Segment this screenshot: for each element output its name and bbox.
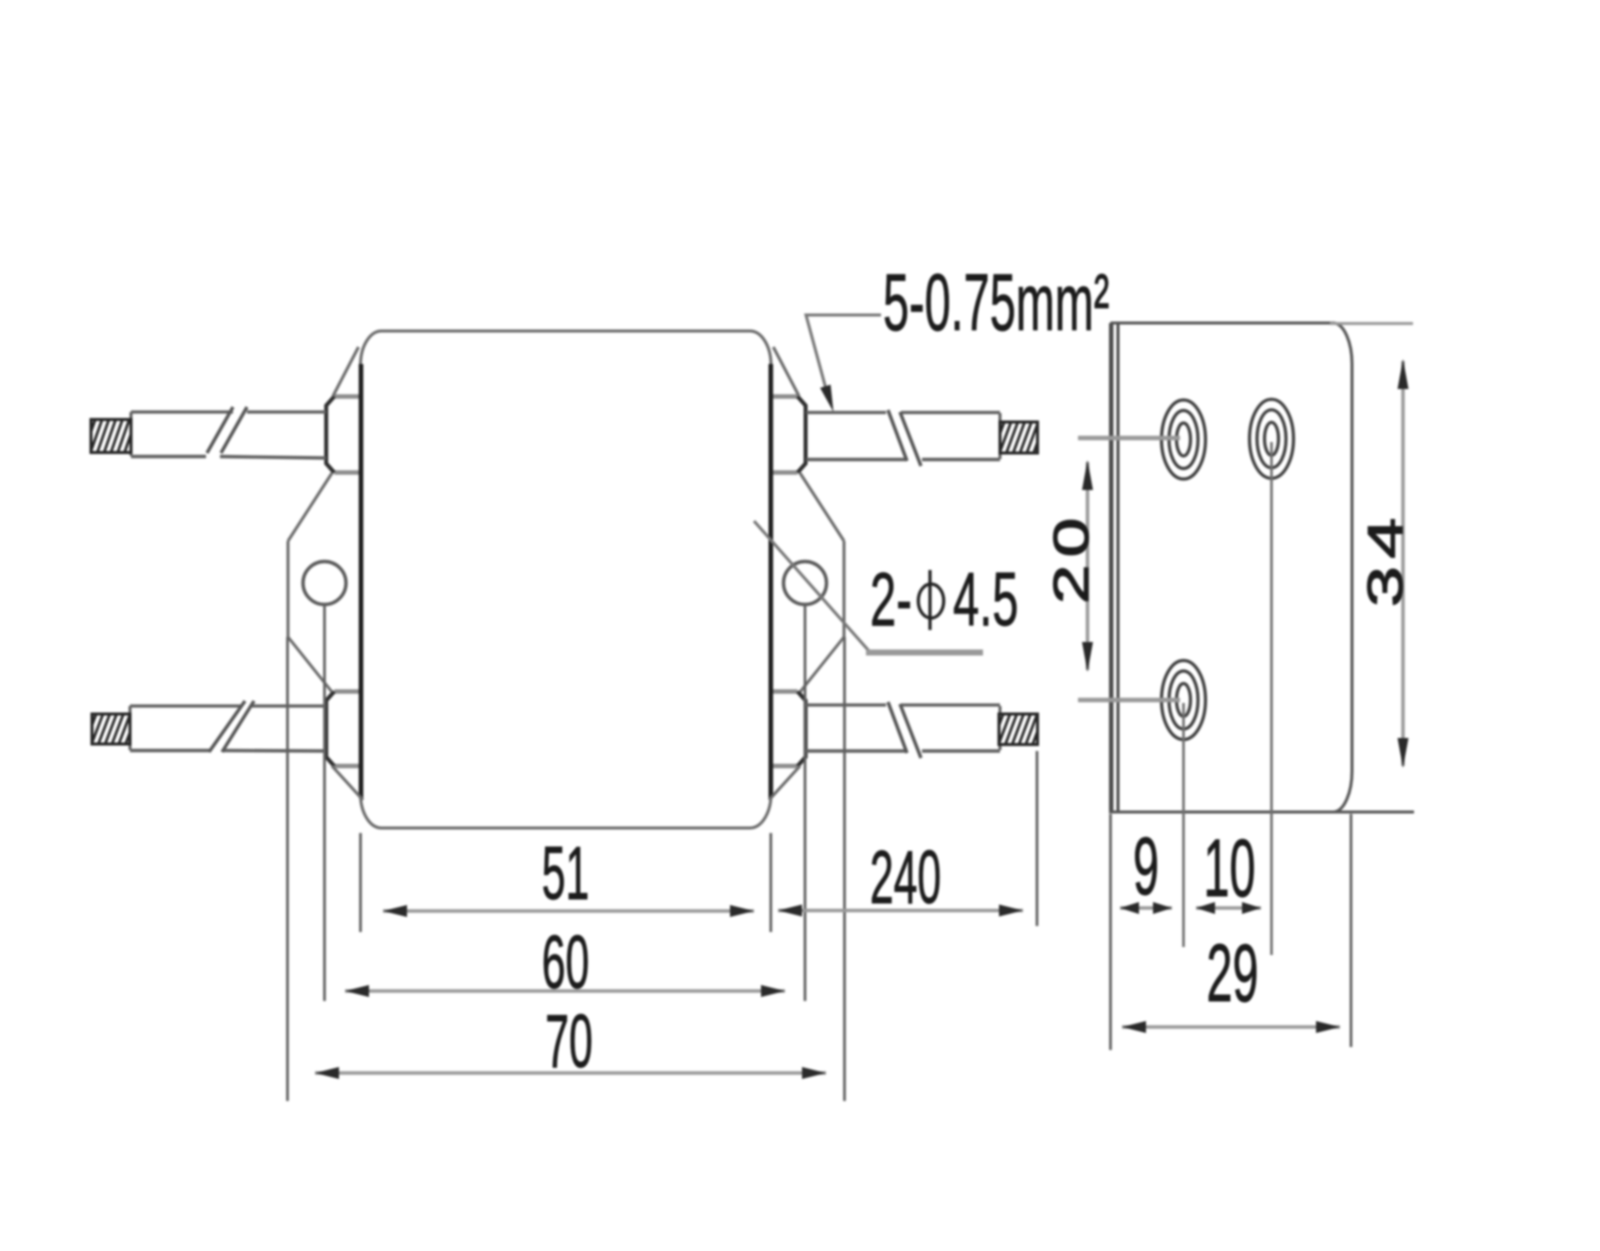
dimension 60 text (542, 920, 590, 1004)
bracket bottom edge tick (1109, 811, 1414, 814)
break symbol bottom-left (209, 701, 254, 752)
wire bushing bottom-left (326, 692, 361, 767)
svg-text:5-0.75mm²: 5-0.75mm² (883, 258, 1109, 349)
body right edge (768, 364, 773, 798)
dimension 70 line (315, 1067, 826, 1079)
svg-text:4.5: 4.5 (953, 558, 1018, 642)
dimension 20 line (1082, 460, 1093, 672)
dimension 34 line (1398, 359, 1409, 768)
leader line mounting hole label (754, 521, 869, 651)
extension line bracket right (1350, 814, 1353, 1047)
extension line flange left (286, 637, 289, 1101)
leader line wire gauge label (806, 315, 881, 412)
dimension 240 text (870, 835, 941, 919)
dimension 10 line (1196, 902, 1261, 914)
extension line wire end (1036, 751, 1039, 926)
extension line hole right (804, 605, 807, 1001)
dimension 51 line (383, 905, 754, 917)
bracket top edge tick (1330, 322, 1413, 325)
extension line flange right (843, 637, 846, 1101)
tinned end top-left (83, 418, 144, 455)
rivet top-left (1162, 400, 1206, 479)
dimension 9 text (1133, 822, 1159, 913)
svg-text:20: 20 (1044, 510, 1099, 604)
extension line body left (359, 833, 362, 932)
leader rivet row top (1078, 436, 1180, 441)
mounting hole left (303, 562, 346, 605)
mounting flange right (769, 347, 844, 800)
filter body (361, 331, 772, 828)
dimension 70 text (545, 999, 593, 1083)
bracket bent edge (1111, 323, 1119, 812)
wire bushing bottom-right (771, 692, 806, 767)
wire lead top-right (806, 413, 1000, 460)
break symbol top-left (207, 407, 247, 453)
mounting flange left (288, 347, 363, 800)
break symbol bottom-right (888, 702, 921, 758)
extension line hole left (323, 605, 326, 1001)
svg-text:29: 29 (1207, 929, 1259, 1020)
wire bushing top-right (771, 397, 806, 473)
svg-text:10: 10 (1204, 824, 1256, 915)
wire bushing top-left (326, 397, 361, 473)
wire lead bottom-left (130, 706, 326, 751)
body left edge (359, 364, 364, 798)
leader rivet row bottom (1078, 698, 1180, 703)
extension line body right (769, 833, 772, 932)
dimension 51 text (542, 831, 590, 915)
dimension 60 line (345, 985, 785, 997)
dimension 10 text (1204, 824, 1256, 915)
extension line bracket left (1109, 814, 1112, 1050)
svg-text:9: 9 (1133, 822, 1159, 913)
wire lead top-left (131, 412, 326, 458)
tinned end top-right (992, 420, 1053, 455)
svg-text:240: 240 (870, 835, 941, 919)
break symbol top-right (888, 410, 921, 466)
rivet bottom-left (1162, 661, 1206, 740)
dimension 29 line (1122, 1021, 1340, 1033)
wire lead bottom-right (806, 705, 1000, 751)
svg-text:51: 51 (542, 831, 590, 915)
tinned end bottom-left (84, 712, 145, 746)
label 2-dia4.5 (870, 558, 1018, 642)
dimension 29 text (1207, 929, 1259, 1020)
svg-text:2-: 2- (870, 558, 912, 642)
dimension 240 line (778, 905, 1023, 917)
label underline (866, 650, 983, 656)
bracket plate (1112, 323, 1352, 812)
dimension 9 line (1120, 902, 1172, 914)
dimension 20 text (1044, 510, 1099, 604)
dimension 34 text (1358, 510, 1413, 607)
svg-text:70: 70 (545, 999, 593, 1083)
mounting hole right (784, 562, 827, 605)
svg-text:60: 60 (542, 920, 590, 1004)
label 5-0.75mm2 (883, 258, 1109, 349)
svg-text:34: 34 (1358, 510, 1413, 607)
center line rivet bottom (1182, 703, 1185, 947)
center line rivet top-right (1270, 442, 1273, 955)
rivet top-right (1250, 399, 1294, 478)
tinned end bottom-right (991, 712, 1052, 747)
